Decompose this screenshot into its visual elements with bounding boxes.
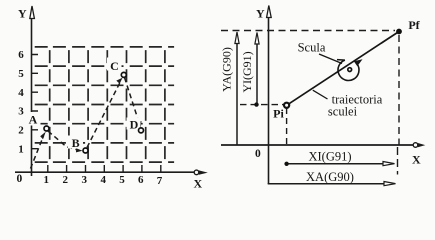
svg-text:3: 3 bbox=[82, 174, 88, 186]
tool circle (scula) bbox=[338, 60, 359, 80]
point A bbox=[44, 126, 49, 131]
XI(G91) dimension line bbox=[287, 163, 383, 165]
YI(G91) dimension line bbox=[256, 42, 258, 105]
svg-text:5: 5 bbox=[119, 174, 125, 186]
svg-text:Y: Y bbox=[256, 7, 265, 21]
svg-text:3: 3 bbox=[18, 106, 24, 118]
svg-text:2: 2 bbox=[63, 174, 69, 186]
left X axis arrowhead bbox=[194, 170, 199, 175]
svg-text:1: 1 bbox=[18, 143, 24, 155]
svg-text:XI(G91): XI(G91) bbox=[308, 150, 351, 164]
svg-text:Scula: Scula bbox=[298, 41, 326, 55]
svg-text:5: 5 bbox=[18, 68, 24, 80]
right Y axis arrowhead bbox=[267, 6, 272, 18]
dashed path O to A bbox=[31, 136, 44, 169]
arrowhead into C bbox=[116, 78, 122, 84]
leader traiectoria bbox=[313, 90, 328, 99]
svg-text:YA(G90): YA(G90) bbox=[220, 47, 234, 92]
left Y axis arrowhead bbox=[30, 6, 35, 19]
svg-text:YI(G91): YI(G91) bbox=[240, 51, 254, 92]
arrowhead on trajectory bbox=[354, 59, 363, 66]
svg-text:6: 6 bbox=[18, 49, 24, 61]
arrowhead into A bbox=[40, 132, 46, 140]
arrowhead into B bbox=[76, 148, 83, 152]
left X axis bbox=[15, 171, 194, 173]
vertical extension below axis at Pf x bbox=[397, 147, 399, 175]
tool circle barb bbox=[337, 59, 345, 62]
svg-text:Pf: Pf bbox=[408, 18, 420, 32]
top dashed line at Pf level bbox=[221, 30, 395, 32]
left X axis numbers bbox=[44, 174, 163, 187]
point D bbox=[139, 128, 144, 133]
svg-text:0: 0 bbox=[17, 173, 23, 185]
svg-text:0: 0 bbox=[255, 148, 261, 160]
svg-text:XA(G90): XA(G90) bbox=[306, 170, 354, 184]
YI(G91) start dot bbox=[254, 102, 258, 106]
tool center dot bbox=[348, 68, 352, 72]
left Y axis ticks bbox=[32, 55, 39, 149]
svg-text:2: 2 bbox=[18, 124, 24, 136]
svg-text:sculei: sculei bbox=[328, 105, 358, 119]
svg-text:7: 7 bbox=[157, 175, 163, 187]
svg-text:D: D bbox=[130, 117, 139, 131]
dashed vertical below Pi bbox=[286, 108, 288, 145]
svg-text:Pi: Pi bbox=[273, 107, 284, 121]
left Y axis bbox=[31, 17, 33, 176]
YA(G90) dimension line bbox=[236, 42, 238, 145]
arrowhead into D bbox=[137, 121, 142, 128]
point Pi bbox=[284, 103, 289, 108]
dashed line Y axis to Pi bbox=[240, 104, 285, 106]
svg-text:6: 6 bbox=[138, 174, 144, 186]
dashed path B to C bbox=[87, 81, 121, 148]
XA(G90) dimension line bbox=[268, 183, 384, 185]
svg-text:B: B bbox=[72, 136, 80, 150]
svg-text:4: 4 bbox=[18, 87, 24, 99]
leader Scula bbox=[319, 54, 342, 64]
left X axis ticks bbox=[48, 165, 161, 172]
svg-text:X: X bbox=[412, 153, 421, 167]
dashed path C to D bbox=[125, 78, 140, 125]
tool trajectory line Pi to Pf bbox=[287, 32, 399, 106]
svg-text:C: C bbox=[110, 59, 119, 73]
point B bbox=[83, 148, 88, 153]
right X axis arrowhead bbox=[413, 143, 418, 148]
point C bbox=[121, 72, 126, 77]
left Y axis numbers bbox=[18, 49, 24, 155]
svg-text:X: X bbox=[194, 177, 203, 191]
svg-text:Y: Y bbox=[18, 7, 27, 21]
svg-text:1: 1 bbox=[44, 174, 50, 186]
svg-text:4: 4 bbox=[100, 174, 106, 186]
svg-text:A: A bbox=[29, 113, 38, 127]
grid horizontal dashes bbox=[35, 47, 174, 162]
right X axis bbox=[221, 144, 414, 146]
grid vertical dashes bbox=[50, 50, 165, 159]
label halos bbox=[26, 112, 41, 126]
dashed path A to B bbox=[48, 131, 79, 150]
XI(G91) start dot bbox=[284, 162, 288, 166]
dashed vertical below Pf bbox=[398, 35, 400, 145]
right Y axis bbox=[268, 16, 270, 184]
point Pf bbox=[396, 29, 402, 35]
